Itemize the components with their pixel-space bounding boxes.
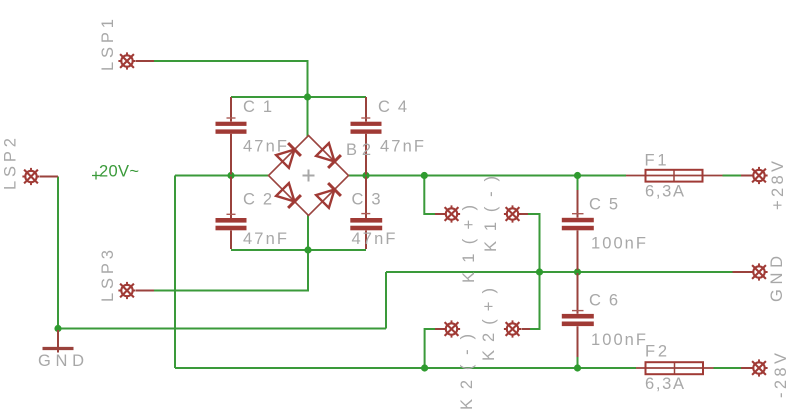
svg-text:47nF: 47nF xyxy=(243,137,287,155)
junction node K2- on -rail xyxy=(421,364,428,371)
diode lower-right of B2 xyxy=(316,183,341,208)
svg-text:47nF: 47nF xyxy=(243,230,287,248)
diode upper-right of B2 xyxy=(316,143,341,168)
wire C5 top stub xyxy=(577,176,579,191)
junction node K1+ on +rail xyxy=(421,172,428,179)
wire LSP2 drop xyxy=(57,177,59,329)
wire LSP3 to bridge bottom xyxy=(154,215,308,291)
junction node K1-/K2+ on GND rail xyxy=(536,268,543,275)
fuse F1 xyxy=(626,170,723,182)
svg-text:100nF: 100nF xyxy=(591,235,646,253)
svg-text:6,3A: 6,3A xyxy=(645,183,684,201)
pin stub LSP2 xyxy=(40,176,58,178)
capacitor C6 xyxy=(562,273,594,357)
pin stub K2- xyxy=(435,328,443,330)
pin stub K2+ xyxy=(522,328,531,330)
junction node at bridge top column xyxy=(304,93,311,100)
pin stub GND right xyxy=(733,271,751,273)
pad K1+ xyxy=(443,205,460,222)
pad GND right xyxy=(750,263,767,280)
junction node C5 on +rail xyxy=(574,172,581,179)
svg-text:100nF: 100nF xyxy=(591,331,646,349)
pin stub LSP1 xyxy=(136,60,154,62)
svg-text:47nF: 47nF xyxy=(352,230,396,248)
wire top bus C1-C4 xyxy=(231,96,366,98)
wire AC left segment xyxy=(175,175,269,177)
capacitor C1 xyxy=(216,97,247,175)
wire +28V rail xyxy=(349,175,627,177)
junction node bridge bottom on bus xyxy=(304,246,311,253)
wire GND rail left riser xyxy=(385,272,387,329)
junction node C5/C6 on GND rail xyxy=(574,268,581,275)
pin stub -28V xyxy=(741,367,751,369)
pad LSP2 xyxy=(22,168,39,185)
svg-text:+28V: +28V xyxy=(769,161,787,210)
pin stub K1+ xyxy=(435,213,443,215)
wire C6 bottom stub xyxy=(577,357,579,368)
pad LSP1 xyxy=(118,52,135,69)
svg-text:GND: GND xyxy=(768,256,786,302)
wire LSP1 to bridge top column xyxy=(154,61,308,137)
junction node C6 on -rail xyxy=(574,364,581,371)
fuse F2 xyxy=(636,362,714,374)
pin stub LSP3 xyxy=(136,290,154,292)
wire F2 to -28V pad xyxy=(714,367,742,369)
capacitor C4 xyxy=(351,97,382,175)
wire F1 to +28V pad xyxy=(723,175,742,177)
ground symbol xyxy=(43,330,74,353)
junction node LSP2/GND symbol xyxy=(54,325,61,332)
diode upper-left of B2 xyxy=(276,143,301,168)
pad K2+ xyxy=(504,320,521,337)
wire bottom -28V rail xyxy=(175,367,636,369)
pin stub +28V xyxy=(741,175,751,177)
wire K2- drop xyxy=(425,329,435,368)
capacitor C2 xyxy=(216,177,247,250)
rectifier bridge B2 diamond xyxy=(269,136,349,216)
capacitor C5 xyxy=(562,190,594,270)
wire K1- riser to GND rail and K2+ xyxy=(528,214,540,329)
svg-text:20V~: 20V~ xyxy=(99,163,139,181)
origin cross of 20V~ label xyxy=(92,172,100,180)
wire K1+ drop xyxy=(424,176,435,215)
pin stub K1- xyxy=(521,213,529,215)
pad LSP3 xyxy=(118,282,135,299)
wire GND mid rail xyxy=(386,271,733,273)
svg-text:GND: GND xyxy=(38,352,84,370)
svg-text:6,3A: 6,3A xyxy=(645,375,684,393)
pad -28V xyxy=(750,359,767,376)
junction node C1/C2 on AC left xyxy=(227,172,234,179)
plus sign in bridge center xyxy=(303,170,315,182)
wire LSP2 GND horizontal xyxy=(58,328,386,330)
wire bottom bus C2-C3 xyxy=(231,249,366,251)
pad K1- xyxy=(504,205,521,222)
svg-text:47nF: 47nF xyxy=(380,137,424,155)
junction node C4/C3 on +rail xyxy=(362,172,369,179)
pad K2- xyxy=(443,320,460,337)
pad +28V xyxy=(750,167,767,184)
capacitor C3 xyxy=(350,177,382,250)
diode lower-left of B2 xyxy=(276,183,301,208)
wire left riser to bottom rail xyxy=(174,176,176,369)
